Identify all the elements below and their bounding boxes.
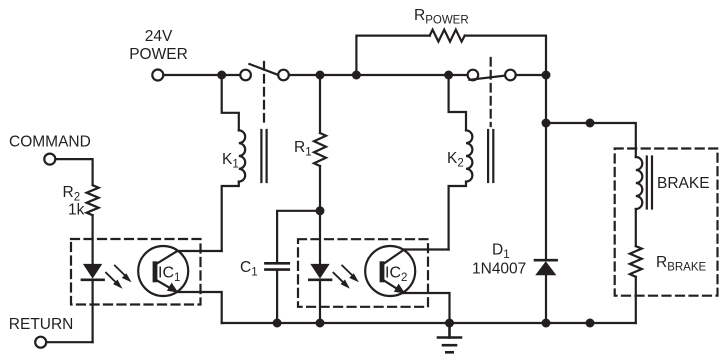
phototransistor IC1 base bar xyxy=(153,261,158,282)
wire LED2 cathode to bottom rail xyxy=(319,280,321,323)
wire LED1 cathode down to RETURN xyxy=(91,280,93,342)
wire right rail to D1 xyxy=(545,123,547,260)
brake coil xyxy=(636,157,643,209)
LED IC1 light arrow 1 xyxy=(115,266,132,283)
phototransistor IC1 emitter stroke with arrow xyxy=(157,281,178,293)
wire IC1 collector to K1 xyxy=(177,250,222,252)
phototransistor IC1 collector stroke xyxy=(157,252,177,264)
brake coil core xyxy=(647,157,652,209)
node brake terminal top xyxy=(586,119,595,128)
diode D1 triangle xyxy=(535,261,556,275)
LED IC2 light arrow 2 xyxy=(333,273,350,289)
LED D-IC1 cathode bar xyxy=(82,278,104,281)
switch S1 arm (open) xyxy=(249,64,276,74)
relay K2 mechanical link (dashed) xyxy=(490,58,492,126)
svg-text:POWER: POWER xyxy=(129,46,188,63)
svg-text:BRAKE: BRAKE xyxy=(657,175,710,192)
wire K2 top lead xyxy=(449,75,466,130)
svg-text:COMMAND: COMMAND xyxy=(9,134,91,151)
phototransistor IC2 emitter stroke with arrow xyxy=(384,281,405,294)
node junction RPOWER right xyxy=(542,71,551,80)
switch S2 arm (closed) xyxy=(469,76,505,80)
ground symbol xyxy=(438,323,461,352)
svg-text:1N4007: 1N4007 xyxy=(472,261,526,278)
wire right rail upper xyxy=(545,75,547,123)
node junction R1 top xyxy=(316,71,325,80)
phototransistor IC2 collector stroke xyxy=(384,250,404,264)
svg-text:D1: D1 xyxy=(492,242,510,262)
svg-text:RETURN: RETURN xyxy=(9,316,74,333)
node junction brake tap xyxy=(542,119,551,128)
svg-text:C1: C1 xyxy=(240,259,258,279)
node junction C1 bottom xyxy=(273,319,282,328)
relay coil K2 xyxy=(466,130,472,181)
wire R1 top lead xyxy=(319,75,321,133)
wire R2 to LED1 xyxy=(91,215,93,264)
brake assembly (dashed box) xyxy=(615,149,718,296)
node junction ground xyxy=(445,319,454,328)
svg-text:RPOWER: RPOWER xyxy=(414,7,469,27)
LED D-IC2 top lead xyxy=(319,211,321,264)
wire brake coil to RBRAKE xyxy=(635,209,637,246)
svg-text:24V: 24V xyxy=(145,28,173,45)
resistor RBRAKE xyxy=(630,246,642,277)
LED IC2 light arrow 1 xyxy=(342,266,359,283)
node junction R1/C1/LED2 xyxy=(316,206,325,215)
wire COMMAND to R2 xyxy=(56,159,93,185)
LED D-IC1 anode triangle xyxy=(83,264,102,279)
terminal 24V POWER xyxy=(152,70,163,81)
wire top rail middle xyxy=(289,74,468,76)
switch S2 contact left xyxy=(468,70,479,81)
wire K1 bottom lead xyxy=(222,182,239,251)
wire C1 top lead xyxy=(277,211,320,263)
phototransistor IC1 circle xyxy=(138,246,188,296)
wire C1 bottom lead xyxy=(276,270,278,323)
resistor RPOWER xyxy=(430,30,465,42)
capacitor C1 xyxy=(265,263,288,269)
svg-text:1k: 1k xyxy=(68,202,85,219)
wire IC2 emitter to ground rail xyxy=(404,293,450,323)
diode D1 cathode bar xyxy=(535,259,557,262)
switch S1 contact right xyxy=(278,70,289,81)
LED D-IC2 cathode bar xyxy=(309,278,331,281)
optocoupler IC1 package (dashed box) xyxy=(71,239,201,305)
wire D1 anode to bottom rail xyxy=(545,275,547,323)
LED D-IC2 anode triangle xyxy=(310,264,329,279)
relay coil K1 xyxy=(239,130,245,181)
wire RPOWER right leg xyxy=(465,36,546,75)
wire RBRAKE to bottom rail xyxy=(635,277,637,323)
wire IC2 collector to K2 xyxy=(404,248,449,250)
switch S1 contact left xyxy=(240,70,251,81)
wire bottom rail xyxy=(222,322,636,324)
node brake terminal bottom xyxy=(586,319,595,328)
wire top rail right xyxy=(516,74,546,76)
switch S2 contact right xyxy=(505,70,516,81)
resistor R1 xyxy=(314,133,326,166)
relay K1 core xyxy=(261,130,266,182)
node junction LED2 bottom xyxy=(316,319,325,328)
wire K2 bottom lead xyxy=(449,182,466,250)
svg-text:R1: R1 xyxy=(294,139,312,159)
wire top rail left xyxy=(164,74,240,76)
phototransistor IC2 base bar xyxy=(380,261,385,282)
wire K1 top lead xyxy=(222,75,239,130)
phototransistor IC2 circle xyxy=(365,246,415,296)
node junction RPOWER left xyxy=(352,71,361,80)
svg-text:K2: K2 xyxy=(447,150,464,170)
svg-text:K1: K1 xyxy=(222,151,239,171)
node junction K2 top xyxy=(444,71,453,80)
wire brake feed xyxy=(546,123,636,157)
terminal RETURN xyxy=(35,337,46,348)
resistor R2 xyxy=(87,185,99,215)
svg-text:RBRAKE: RBRAKE xyxy=(656,254,707,274)
terminal COMMAND xyxy=(44,154,55,165)
relay K2 core xyxy=(488,130,493,182)
node junction D1 bottom xyxy=(542,319,551,328)
wire RETURN xyxy=(47,341,93,343)
wire RPOWER left leg xyxy=(356,36,429,75)
wire R1 bottom lead xyxy=(319,166,321,211)
relay K1 mechanical link (dashed) xyxy=(263,62,265,126)
wire IC1 emitter to bottom rail xyxy=(177,292,222,323)
LED IC1 light arrow 2 xyxy=(106,273,123,289)
node junction K1 top xyxy=(217,71,226,80)
optocoupler IC2 package (dashed box) xyxy=(298,239,428,307)
